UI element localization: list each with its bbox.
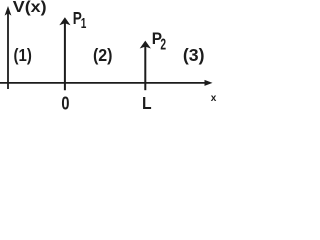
svg-text:(1): (1) [14,45,32,65]
svg-text:2: 2 [160,37,166,54]
y-axis V(x) vertical line [7,12,9,89]
x-axis arrowhead [205,80,213,86]
svg-text:V(x): V(x) [13,0,47,16]
y-axis arrowhead [5,6,12,16]
arrow P2 head [140,41,151,49]
x-axis horizontal line [0,82,206,84]
svg-text:0: 0 [61,93,69,110]
svg-text:(2): (2) [93,45,113,65]
svg-text:L: L [142,93,152,110]
arrow P1 head [59,17,70,25]
svg-text:x: x [211,93,217,104]
svg-text:1: 1 [81,16,87,32]
arrow P1 stem with tick below axis [64,22,66,90]
svg-text:(3): (3) [183,45,205,65]
arrow P2 stem with tick below axis [144,45,146,90]
